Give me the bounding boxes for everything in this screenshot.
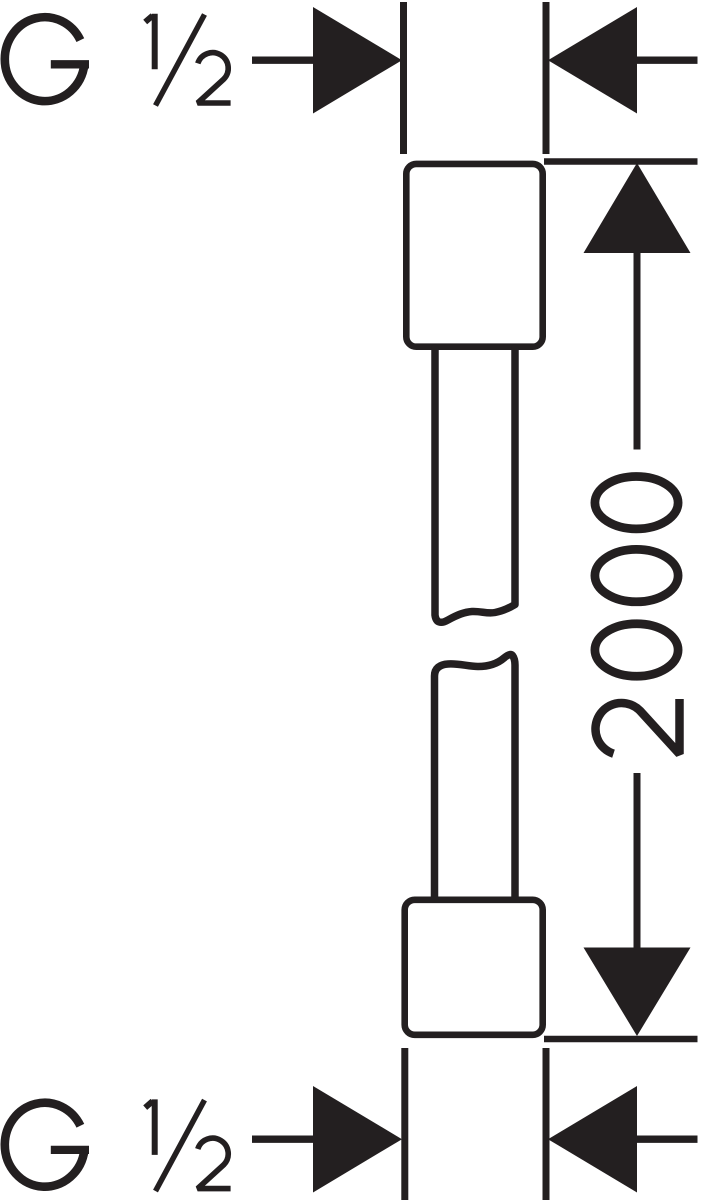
extension line right (bottom) (543, 1048, 550, 1200)
arrow up-pointing (2000 dim) (584, 163, 691, 253)
digit 0 (lower) (595, 624, 678, 676)
hose connector nut (bottom) (405, 900, 543, 1035)
arrow left-pointing (top) (548, 7, 637, 114)
label G (top-left thread size) (5, 17, 89, 101)
dimension line left (bottom G1/2) (252, 1135, 314, 1142)
hose tube upper segment with break (435, 348, 515, 622)
arrow down-pointing (2000 dim) (584, 948, 691, 1037)
dimension line left (top G1/2) (252, 57, 314, 64)
extension line horizontal top (for 2000 dim) (544, 158, 698, 165)
dimension line right (top G1/2) (637, 57, 698, 64)
dimension text 2000 rotated: digit 0 (top) (595, 477, 678, 529)
hose tube lower segment with break (435, 655, 516, 897)
label 1/2 fraction (top-left) (145, 14, 230, 106)
extension line right (top) (543, 2, 550, 154)
dimension line vertical lower segment (2000) (634, 773, 641, 948)
dimension line vertical upper segment (2000) (634, 253, 641, 450)
extension line horizontal bottom (for 2000 dim) (544, 1036, 698, 1043)
hose connector nut (top) (406, 164, 542, 347)
extension line left (top) (400, 2, 407, 154)
arrow right-pointing (bottom) (313, 1086, 402, 1193)
dimension line right (bottom G1/2) (637, 1135, 698, 1142)
extension line left (bottom) (401, 1048, 408, 1200)
arrow right-pointing (top) (313, 7, 402, 114)
label G (bottom thread size) (5, 1103, 89, 1187)
arrow left-pointing (bottom) (548, 1086, 637, 1193)
label 1/2 fraction (bottom) (145, 1099, 230, 1191)
digit 2 (rotated -90) (595, 699, 679, 754)
digit 0 (middle) (595, 549, 678, 601)
